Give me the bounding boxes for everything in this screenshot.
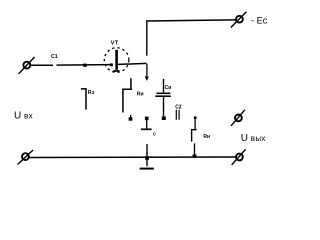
resistor R3 (81, 89, 95, 110)
capacitor Cи (155, 79, 171, 120)
terminal Uвых upper right (231, 110, 245, 126)
node junction dot above R3 (83, 64, 87, 67)
wire drain to corner and arrow down (118, 63, 149, 81)
ground stem and junction on bottom rail (140, 144, 154, 169)
svg-text:C1: C1 (51, 54, 58, 60)
svg-text:Rз: Rз (88, 90, 95, 96)
svg-text:Rн: Rн (203, 134, 210, 140)
wire bottom rail (29, 156, 235, 159)
svg-text:VT: VT (111, 40, 119, 46)
svg-text:Rи: Rи (137, 92, 144, 98)
terminal -Ec top-right (231, 12, 247, 28)
resistor Rи (123, 78, 144, 121)
svg-text:U вх: U вх (14, 111, 33, 122)
wire input to C1 (31, 64, 53, 66)
transistor VT (104, 40, 129, 72)
wire vertical to -Ec rail (146, 20, 148, 55)
terminal bottom-left (18, 150, 34, 165)
svg-text:с: с (153, 131, 156, 137)
svg-text:C2: C2 (175, 105, 182, 111)
wire C1 to gate (57, 64, 112, 67)
terminal bottom-right (232, 149, 246, 165)
terminal input top-left (19, 57, 35, 74)
svg-text:Cи: Cи (165, 85, 172, 91)
node dot and plate (Cн) (141, 117, 156, 138)
resistor Rн (192, 116, 210, 157)
wire top rail to -Ec terminal (146, 20, 235, 21)
svg-text:- Eс: - Eс (251, 15, 268, 25)
capacitor C2 (175, 105, 182, 120)
svg-text:U вых: U вых (241, 133, 266, 144)
